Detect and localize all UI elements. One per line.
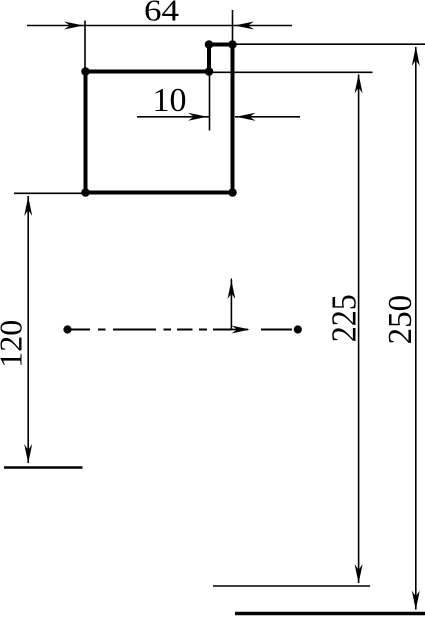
arrow dim-120 top (points up) (24, 197, 32, 217)
wire dim-10 left line (137, 116, 209, 118)
arrow dim-250 bottom (points down) (412, 591, 420, 611)
node bottom-left corner (81, 188, 90, 197)
wire centerline dashes (68, 329, 293, 331)
wire bottom reference line y613 for dim-250 (235, 612, 425, 616)
center line (dash-dot) (68, 329, 293, 331)
node notch bottom corner (205, 67, 214, 76)
node centerline left dot (63, 325, 71, 333)
wire dim-225 line (358, 75, 360, 584)
axis marker vertical line with up arrow (228, 279, 236, 330)
wire rect left edge (84, 72, 88, 193)
svg-text:120: 120 (0, 320, 28, 368)
arrow axis right (232, 326, 250, 334)
arrow dim-10 right (points left) (236, 113, 256, 121)
svg-text:64: 64 (144, 0, 179, 28)
wire axis overshoot (230, 279, 232, 283)
node notch top-right corner (228, 40, 237, 49)
wire axis right shaft (232, 329, 249, 331)
svg-text:250: 250 (382, 295, 419, 345)
wire rect top edge (86, 70, 210, 74)
wire dim-120 bottom reference line (4, 466, 83, 469)
wire notch left edge (207, 45, 211, 72)
wire bottom reference line y586 for dim-225 (213, 585, 370, 587)
arrow dim-250 top (points up) (412, 47, 420, 67)
arrow dim-225 top (points up) (355, 74, 363, 94)
wire top reference line y72 for dim-225 (209, 71, 373, 73)
svg-text:225: 225 (325, 294, 363, 342)
arrow dim-10 left (points right) (188, 113, 208, 121)
wire dim-64 left extension line (84, 21, 86, 69)
node bottom-right corner (228, 188, 237, 197)
wire rect bottom edge (86, 191, 233, 195)
wire rect right edge (231, 45, 235, 193)
corner junction dots (81, 40, 237, 197)
wire dim-10 extension line (209, 75, 211, 131)
arrow dim-64 right (points left, tip at right extension) (235, 22, 255, 30)
wire notch top edge (209, 43, 233, 47)
node notch top-left corner (205, 40, 214, 49)
arrow dim-120 bottom (points down) (24, 444, 32, 464)
wire left extension of rect bottom for dim-120 (14, 192, 86, 194)
wire dim-250 line (415, 47, 417, 610)
arrow dim-225 bottom (points down) (355, 564, 363, 584)
arrow axis up (228, 281, 236, 300)
wire dim-120 line (27, 196, 29, 463)
node top-left corner (81, 67, 90, 76)
svg-text:10: 10 (153, 82, 187, 119)
dimension texts (0, 0, 419, 368)
node centerline right dot (294, 325, 302, 333)
part outline: rectangle with notch (thick object lines) (86, 45, 233, 193)
wire top reference line y44 for dim-250 (233, 43, 425, 45)
arrow dim-64 left (points right, tip at left extension) (64, 22, 84, 30)
wire dim-64 right extension line (232, 10, 234, 45)
wire axis vertical shaft (230, 280, 232, 330)
wire dim-10 right line (235, 116, 300, 118)
wire dim-64 line (27, 25, 292, 27)
